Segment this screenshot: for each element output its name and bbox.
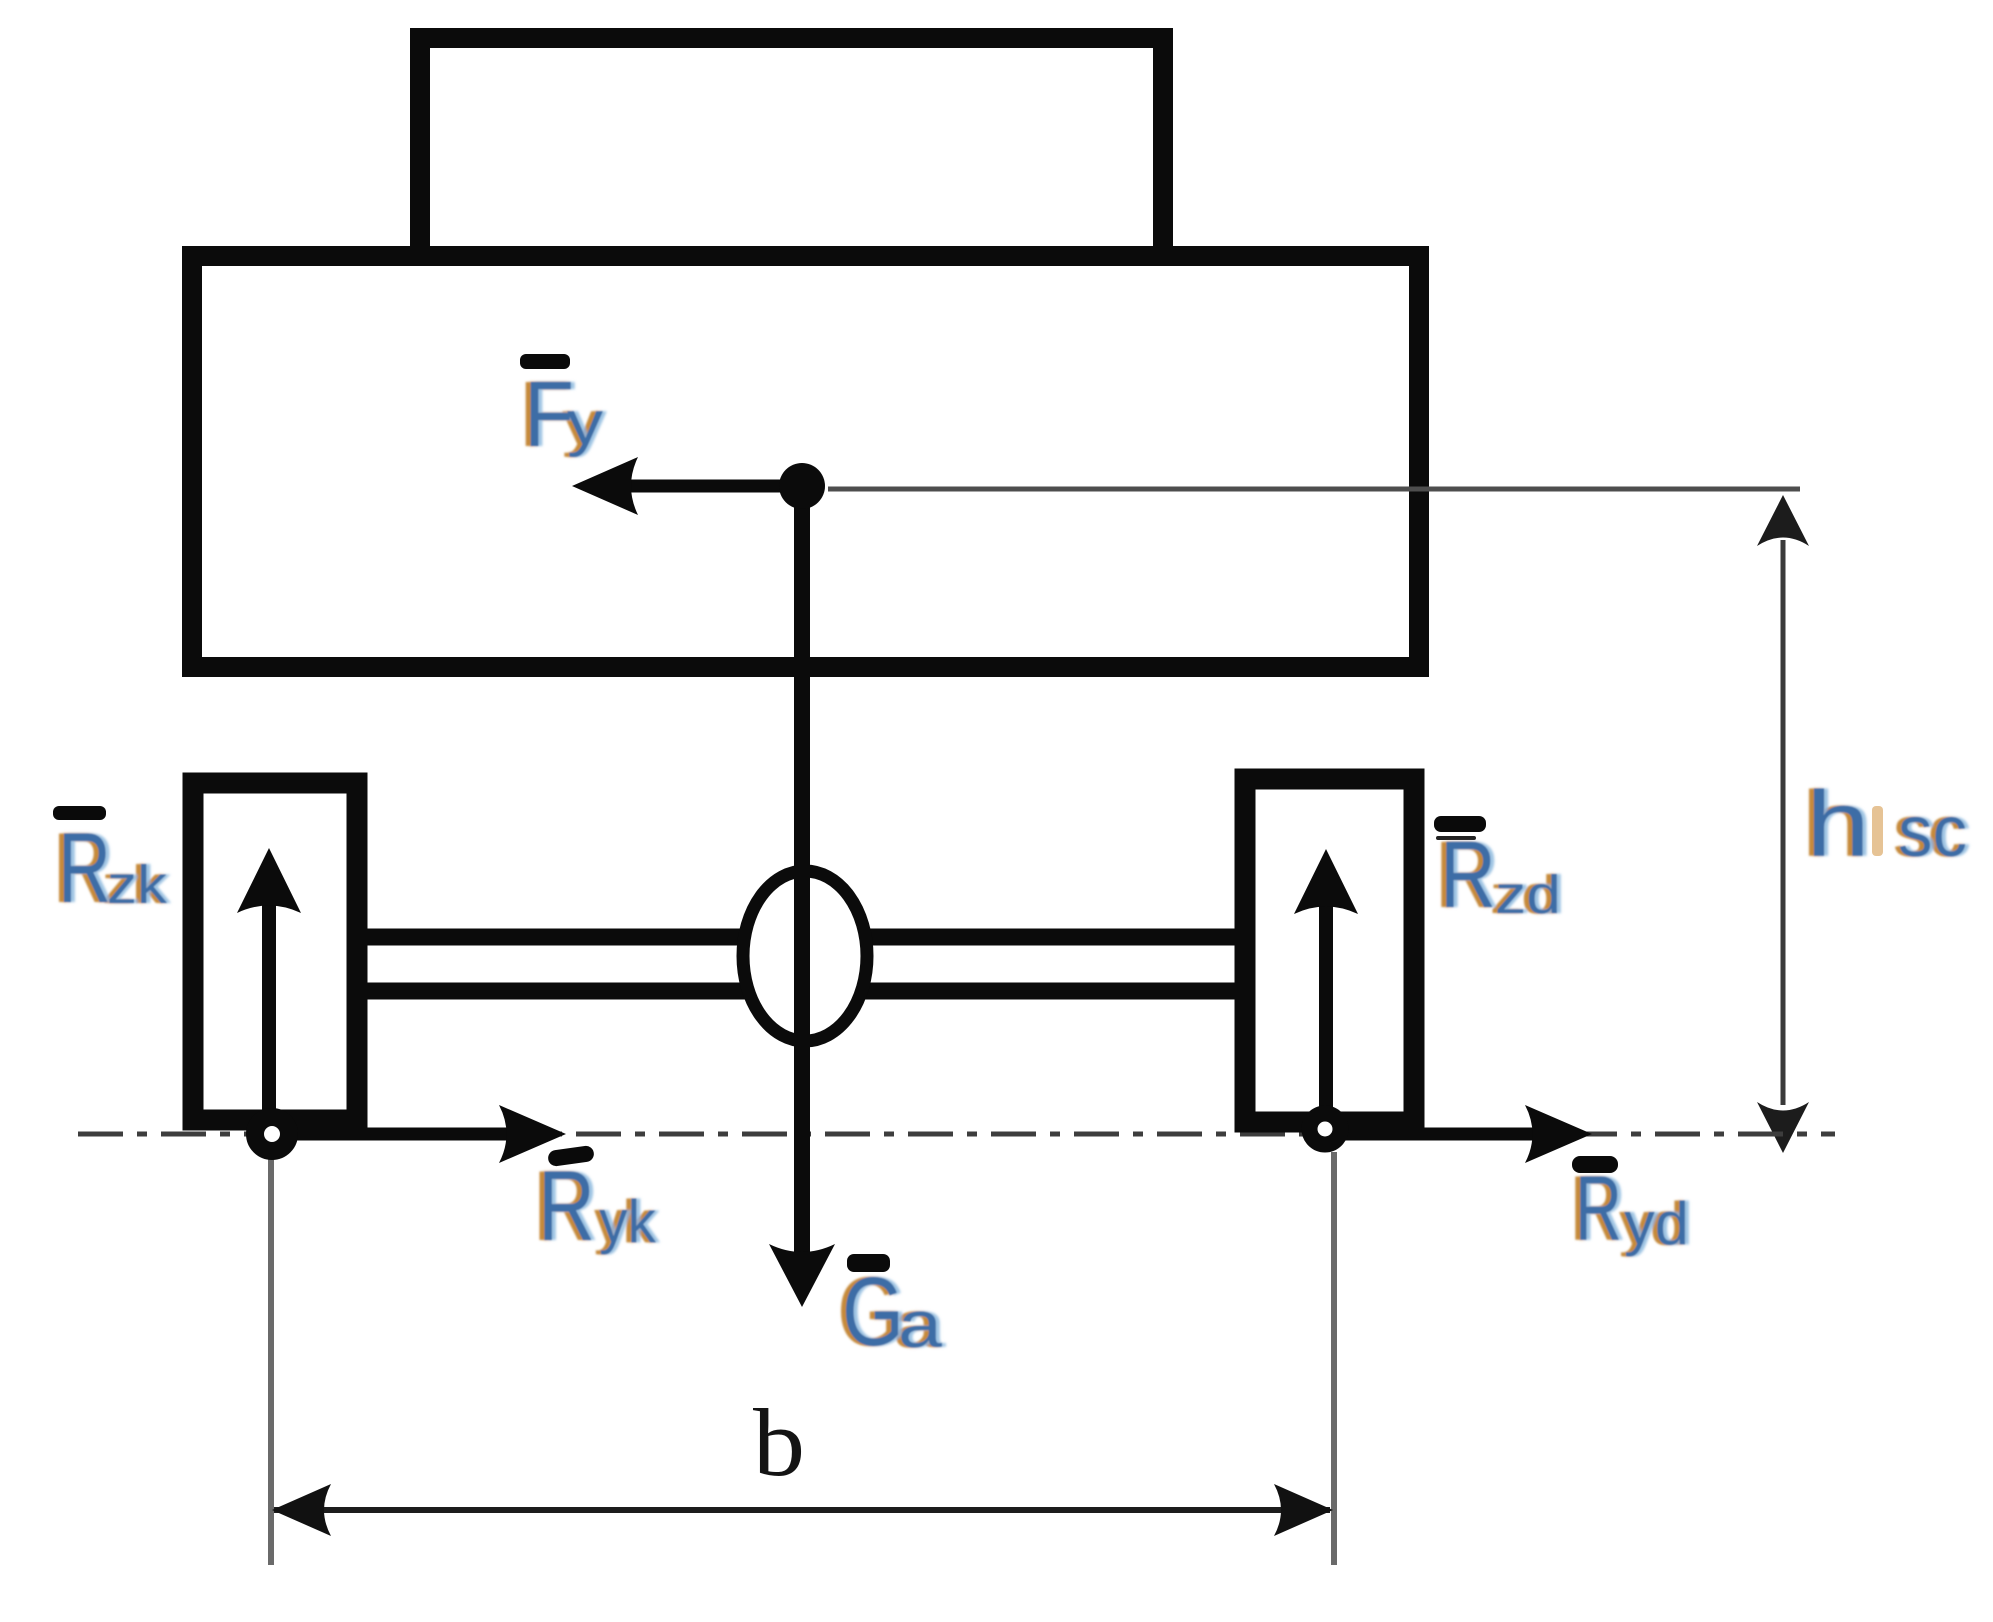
svg-text:a: a xyxy=(898,1287,942,1361)
svg-text:zk: zk xyxy=(107,855,168,915)
svg-text:G: G xyxy=(842,1257,904,1366)
svg-text:R: R xyxy=(538,1150,595,1261)
svg-text:R: R xyxy=(1440,822,1496,928)
svg-text:R: R xyxy=(58,812,111,923)
svg-text:b: b xyxy=(753,1389,805,1496)
svg-text:yd: yd xyxy=(1624,1190,1689,1257)
svg-text:h: h xyxy=(1806,772,1870,876)
svg-text:sc: sc xyxy=(1898,792,1967,872)
svg-text:R: R xyxy=(1575,1158,1622,1260)
svg-text:yk: yk xyxy=(599,1188,657,1255)
svg-text:y: y xyxy=(567,389,603,458)
svg-text:zd: zd xyxy=(1495,865,1561,925)
